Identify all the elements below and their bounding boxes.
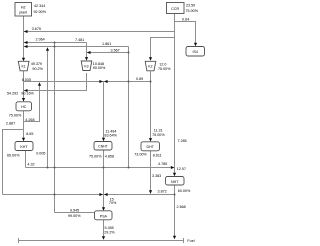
svg-text:83.64%: 83.64% <box>104 133 117 137</box>
svg-text:90.16%: 90.16% <box>21 92 34 96</box>
wire H5 line to K3 <box>24 46 129 48</box>
svg-text:73.00%: 73.00% <box>134 153 147 157</box>
svg-text:NHT: NHT <box>171 180 179 184</box>
svg-text:DHT: DHT <box>147 145 155 149</box>
svg-text:HC: HC <box>21 105 27 109</box>
boxes <box>15 3 205 220</box>
box CCR <box>167 3 185 14</box>
up arrow marker x39.5 <box>38 82 41 86</box>
svg-text:H2: H2 <box>21 5 26 9</box>
svg-text:CCR: CCR <box>171 7 179 11</box>
down arrow PSA residue into fuel <box>102 236 105 240</box>
compressor K2 <box>145 61 156 71</box>
svg-text:75.00%: 75.00% <box>152 133 165 137</box>
facing arrows at PSA feed header <box>99 193 103 196</box>
wire H6 3.567 line <box>87 52 129 54</box>
svg-text:7.481: 7.481 <box>75 38 84 42</box>
box PSA <box>95 211 113 220</box>
compressor K3 <box>81 61 92 71</box>
wire V1 K1 to HC <box>23 71 25 101</box>
arrow into HC <box>22 98 25 102</box>
svg-text:8.611: 8.611 <box>153 153 162 157</box>
wire V4 recycle 0.005 <box>47 49 49 168</box>
wire V1 HC to KHT <box>23 111 25 141</box>
svg-text:90.2%: 90.2% <box>32 67 43 71</box>
svg-text:KHT: KHT <box>20 145 28 149</box>
up arrow marker x47.5 <box>46 47 49 51</box>
wire V12 IS4 feed 0.64 <box>175 22 196 45</box>
svg-text:70%: 70% <box>109 201 117 205</box>
svg-text:75.00%: 75.00% <box>186 9 199 13</box>
wire V7 K3 outlet <box>24 73 87 91</box>
box H2 plant <box>15 3 32 17</box>
left arrow HC suction <box>24 89 28 92</box>
svg-text:29.2%: 29.2% <box>104 231 115 235</box>
wire V10 K2 out to DHT <box>150 71 152 139</box>
svg-text:0.89: 0.89 <box>136 77 143 81</box>
svg-text:4.32: 4.32 <box>27 163 34 167</box>
right arrow into NHT main 4.785 <box>171 166 175 169</box>
compressor K1 <box>18 61 29 71</box>
arrow into K3 <box>85 57 88 61</box>
wire V8 PSA residue to fuel <box>103 220 105 238</box>
svg-text:7.285: 7.285 <box>178 139 187 143</box>
wire V3 recycle 4.268 <box>24 84 40 122</box>
svg-text:75.00%: 75.00% <box>9 113 22 117</box>
wire V6 K3 feed <box>86 43 88 59</box>
wire H4 2.064 line <box>24 42 87 44</box>
wire H2 3.675 line <box>24 31 175 33</box>
wire H8 to HC suction <box>24 90 87 92</box>
left arrow line y46 <box>24 45 28 48</box>
svg-text:9.545: 9.545 <box>70 208 79 212</box>
svg-text:2.064: 2.064 <box>36 38 45 42</box>
fuel line end ticks <box>183 238 185 243</box>
svg-text:12.07: 12.07 <box>177 167 186 171</box>
svg-text:90.00%: 90.00% <box>93 66 106 70</box>
svg-text:92.00%: 92.00% <box>34 10 47 14</box>
svg-text:75.00%: 75.00% <box>158 67 171 71</box>
svg-text:0.005: 0.005 <box>36 151 45 155</box>
arrow into K2 <box>149 57 152 61</box>
svg-text:3.872: 3.872 <box>158 190 167 194</box>
down arrow NHT purge into fuel <box>173 236 176 240</box>
svg-text:4.268: 4.268 <box>25 118 34 122</box>
wire V5 PSA product riser <box>54 43 56 213</box>
wire V11 CCR main <box>174 14 176 175</box>
wire V9 riser x128 <box>128 47 130 168</box>
left arrow 2.064 <box>24 41 28 44</box>
box DHT <box>141 142 160 151</box>
wire H7 header y81 <box>24 81 151 83</box>
wire V10 K2 feed branch <box>151 38 175 58</box>
arrow into K1 <box>22 58 25 62</box>
arrow into NHT <box>173 173 176 177</box>
svg-text:2.668: 2.668 <box>177 205 186 209</box>
svg-text:65.00%: 65.00% <box>7 153 20 157</box>
wire H11 4.32 line <box>26 167 175 169</box>
svg-text:0.64: 0.64 <box>182 18 189 22</box>
arrow into DHT <box>149 138 152 142</box>
wire V8 CNHT feed <box>103 82 105 140</box>
svg-text:49.379: 49.379 <box>31 62 42 66</box>
svg-text:75.00%: 75.00% <box>89 154 102 158</box>
svg-text:5.455: 5.455 <box>105 226 114 230</box>
wire V11 NHT purge to fuel <box>174 185 176 238</box>
svg-text:60.00%: 60.00% <box>178 189 191 193</box>
svg-text:54.292: 54.292 <box>7 92 18 96</box>
wire H12 PSA feed header <box>3 194 175 196</box>
svg-text:23.50: 23.50 <box>186 4 195 8</box>
svg-text:4.858: 4.858 <box>105 154 114 158</box>
arrow into IS4 <box>194 43 197 47</box>
facing arrows at CNHT feed header <box>99 80 103 83</box>
svg-text:K1: K1 <box>22 65 26 69</box>
svg-text:plant: plant <box>19 10 27 14</box>
svg-text:PSA: PSA <box>100 214 108 218</box>
svg-text:IS4: IS4 <box>192 50 197 54</box>
wire H13 PSA product <box>55 212 95 214</box>
wire H2 main V1 top <box>23 16 25 60</box>
svg-text:8.65: 8.65 <box>26 132 33 136</box>
wire H14 fuel line <box>19 240 184 242</box>
wire V8 CNHT out to PSA <box>103 150 105 209</box>
arrowheads <box>22 30 197 240</box>
down arrow marker DHT out <box>149 190 152 194</box>
box IS4 <box>186 47 205 57</box>
svg-text:3.567: 3.567 <box>111 49 120 53</box>
wire V10 DHT out down <box>150 151 152 194</box>
arrow into KHT <box>22 138 25 142</box>
svg-text:2.887: 2.887 <box>6 122 15 126</box>
box HC <box>16 102 32 111</box>
arrow into CNHT <box>102 138 105 142</box>
box CNHT <box>94 142 112 151</box>
svg-text:42.344: 42.344 <box>34 4 45 8</box>
svg-text:K2: K2 <box>148 65 152 69</box>
svg-text:99.00%: 99.00% <box>68 214 81 218</box>
svg-text:K3: K3 <box>84 64 88 68</box>
box NHT <box>166 177 185 186</box>
box KHT <box>15 142 33 151</box>
svg-text:3.675: 3.675 <box>32 27 41 31</box>
svg-text:Fuel: Fuel <box>187 239 194 243</box>
left arrow 3.567 <box>87 51 91 54</box>
svg-text:CNHT: CNHT <box>98 145 107 149</box>
wire KHT outlet <box>25 151 27 168</box>
svg-text:1.861: 1.861 <box>102 42 111 46</box>
svg-text:3.383: 3.383 <box>152 174 161 178</box>
svg-text:6.535: 6.535 <box>22 78 31 82</box>
svg-text:12.0: 12.0 <box>159 63 166 67</box>
arrow into PSA <box>102 207 105 211</box>
left arrow 3.675 <box>24 30 28 33</box>
wire V2 far-left down <box>3 130 24 195</box>
svg-text:4.785: 4.785 <box>158 162 167 166</box>
